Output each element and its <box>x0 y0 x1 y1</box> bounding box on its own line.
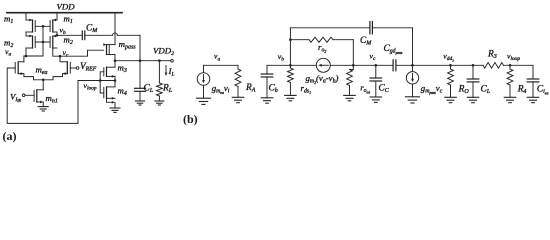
svg-text:m4: m4 <box>118 86 127 98</box>
label vc <box>63 48 69 59</box>
wire m1-right source stub <box>56 13 58 20</box>
junction vb model <box>289 64 292 67</box>
svg-text:R4: R4 <box>517 85 527 96</box>
svg-text:vb: vb <box>278 52 284 63</box>
wire m4 source down <box>107 98 116 108</box>
svg-text:vc: vc <box>370 51 376 62</box>
svg-text:m1: m1 <box>64 14 73 26</box>
label ro_ea <box>360 83 370 95</box>
wire m3 drain up <box>114 61 116 67</box>
svg-text:Cb: Cb <box>269 84 278 95</box>
resistor RA <box>232 65 244 102</box>
ground under mn1 <box>38 107 48 111</box>
wire CM top loop right <box>372 28 412 66</box>
wire va node <box>204 64 239 66</box>
resistor ro_ea <box>344 65 356 101</box>
transistor m2 left PMOS <box>26 35 35 48</box>
junction RO <box>449 64 452 67</box>
label IL <box>168 66 175 78</box>
transistor mpass PMOS <box>103 43 115 54</box>
wire mpass drain to output <box>114 55 116 61</box>
transistor m1 right PMOS <box>50 19 57 32</box>
svg-text:IL: IL <box>168 66 175 78</box>
svg-text:RA: RA <box>245 83 256 94</box>
svg-text:vdd2: vdd2 <box>443 52 454 63</box>
label CL schematic <box>144 84 154 95</box>
wire m2R drain to vc <box>53 48 60 56</box>
capacitor Cgd_pass series <box>393 60 396 71</box>
junction CM output node <box>139 59 142 62</box>
wire mea left source staircase <box>18 72 43 80</box>
ground under gm_pass <box>406 97 420 103</box>
svg-text:gmeavi: gmeavi <box>212 83 230 95</box>
transistor mn1 NMOS <box>34 90 43 104</box>
svg-text:Cgdpass: Cgdpass <box>384 44 403 55</box>
wire CM to output node with hop <box>85 33 140 61</box>
label vloop model <box>507 52 520 63</box>
wire vc to mpass gate <box>60 50 104 56</box>
wire vloop segment <box>504 64 534 66</box>
label mea <box>36 64 48 76</box>
transistor mea left NMOS <box>15 62 18 74</box>
label VIN <box>10 91 21 103</box>
label rds1 <box>301 83 312 95</box>
transistor m2 right PMOS <box>50 35 57 48</box>
resistor ro2 <box>290 37 353 65</box>
wire vb riser <box>289 28 291 66</box>
junction vc <box>59 55 62 58</box>
resistor RL <box>157 61 163 101</box>
label vb model <box>278 52 284 63</box>
svg-text:(b): (b) <box>183 112 198 126</box>
label m1 right <box>64 14 73 26</box>
svg-text:VDD2: VDD2 <box>153 46 174 58</box>
svg-text:m2: m2 <box>64 35 73 47</box>
label CC <box>379 84 390 95</box>
svg-text:VDD: VDD <box>57 2 76 12</box>
svg-text:Ciea: Ciea <box>537 85 549 96</box>
wire mpass source to rail <box>114 13 116 45</box>
junction vloop gates <box>99 79 102 82</box>
wire m1 pair gate tie <box>35 25 50 27</box>
label va model <box>214 52 220 63</box>
label mpass <box>119 39 137 51</box>
svg-text:gm2(va-vb): gm2(va-vb) <box>306 73 339 85</box>
wire vdd2 segment <box>396 64 483 66</box>
terminal VIN bias <box>22 94 25 97</box>
transistor mea right NMOS <box>63 62 71 74</box>
wire m1-left source stub <box>25 13 27 20</box>
wire output node <box>115 60 171 62</box>
wire vb segment <box>267 64 316 66</box>
label VDD2 <box>153 46 174 58</box>
wire mea right gate to VREF <box>70 67 76 69</box>
svg-text:ro2: ro2 <box>318 42 326 54</box>
resistor rds1 <box>285 65 297 101</box>
junction m1 gates <box>42 25 45 28</box>
junction vloop model <box>509 64 512 67</box>
svg-text:RO: RO <box>458 85 470 96</box>
svg-text:va: va <box>214 52 220 63</box>
label Cb <box>269 84 278 95</box>
svg-text:VREF: VREF <box>80 61 97 73</box>
label m2 left <box>4 38 13 50</box>
wire feedback from mea left gate <box>7 68 78 123</box>
svg-text:CL: CL <box>144 84 154 95</box>
load current arrow IL <box>165 66 168 77</box>
svg-text:vc: vc <box>63 48 69 59</box>
svg-text:CM: CM <box>86 24 98 35</box>
wire gate tie vertical to va <box>42 26 44 56</box>
resistor R3 series <box>483 63 504 69</box>
label VREF <box>80 61 97 73</box>
wire m4 gate tie up <box>100 81 104 94</box>
svg-text:mea: mea <box>36 64 48 76</box>
ground under CL schematic <box>136 101 145 105</box>
svg-text:CL: CL <box>481 85 491 96</box>
label gm_ea vi <box>212 83 230 95</box>
wire m2L drain to node va <box>25 48 27 56</box>
capacitor CL schematic <box>135 61 146 101</box>
wire mea left drain up to va <box>18 56 24 62</box>
capacitor Ci_ea <box>527 65 539 102</box>
junction m2 gates <box>42 41 45 44</box>
capacitor CM schematic <box>82 31 85 40</box>
transistor m3 NMOS <box>104 67 115 78</box>
terminal VREF <box>76 67 79 70</box>
label Cgd_pass <box>384 44 403 55</box>
junction ro2 at vc <box>352 64 355 67</box>
junction va m2L drain <box>25 55 28 58</box>
junction gm_pass <box>411 64 414 67</box>
wire m4 drain up <box>114 81 116 87</box>
junction output mpass m3 <box>114 59 117 62</box>
label CL model <box>481 85 491 96</box>
label RL <box>162 84 173 95</box>
label (a) <box>3 129 17 143</box>
svg-text:vb: vb <box>60 25 66 36</box>
label m3 <box>118 63 127 75</box>
transistor m1 left PMOS <box>26 19 35 32</box>
dependent source gm_pass vc <box>406 65 418 97</box>
svg-text:CM: CM <box>360 36 372 47</box>
label va <box>5 47 11 58</box>
label m4 <box>118 86 127 98</box>
svg-text:mpass: mpass <box>119 39 137 51</box>
label vb <box>60 25 66 36</box>
label vdd2 model <box>443 52 454 63</box>
power rail label VDD <box>57 2 76 12</box>
label CM model <box>360 36 372 47</box>
capacitor CM model <box>370 22 373 34</box>
wire vc down to mea right drain <box>60 56 63 62</box>
junction mea tail <box>42 79 45 82</box>
wire m3 source down to vloop <box>114 76 116 80</box>
capacitor CL model <box>467 65 479 102</box>
wire vloop <box>78 80 115 82</box>
label Ci_ea <box>537 85 549 96</box>
label gm2 va-vb <box>306 73 339 85</box>
junction vb <box>56 34 59 37</box>
svg-text:m3: m3 <box>118 63 127 75</box>
ground under m4 <box>110 108 120 112</box>
wire m1L-m2L spine <box>25 32 27 36</box>
label vc model <box>370 51 376 62</box>
svg-text:vloop: vloop <box>84 81 97 92</box>
wire node va <box>24 55 43 57</box>
svg-text:mn1: mn1 <box>46 93 58 105</box>
wire mea right source staircase <box>43 72 67 80</box>
svg-text:(a): (a) <box>3 129 17 143</box>
svg-text:RL: RL <box>162 84 173 95</box>
svg-text:m1: m1 <box>4 14 13 26</box>
capacitor Cb <box>261 65 273 103</box>
wire tail to mn1 <box>42 80 44 90</box>
wire m1R drain to vb <box>56 32 58 35</box>
label RA <box>245 83 256 94</box>
ground under gm_ea source <box>197 98 211 104</box>
label ro2 <box>318 42 326 54</box>
label R3 <box>487 49 497 60</box>
resistor RO <box>445 65 457 102</box>
svg-text:R3: R3 <box>487 49 497 60</box>
capacitor CC <box>370 65 382 102</box>
label m2 right <box>64 35 73 47</box>
dependent source gm2 <box>316 58 330 72</box>
wire m3 gate tie down <box>100 72 104 81</box>
junction vloop m3 m4 <box>114 79 117 82</box>
label RO <box>458 85 470 96</box>
wire mn1 gate <box>25 94 34 96</box>
junction RL branch <box>158 59 161 62</box>
svg-text:gmpassvc: gmpassvc <box>421 83 443 95</box>
wire m2 pair gate tie <box>35 41 50 43</box>
ground under RL <box>155 101 164 105</box>
wire VDD rail <box>7 12 122 14</box>
svg-text:roea: roea <box>360 83 370 95</box>
terminal VDD2 <box>171 59 174 62</box>
wire vb to CM <box>57 34 82 36</box>
transistor m4 NMOS <box>104 87 115 100</box>
label (b) <box>183 112 198 126</box>
label CM schematic <box>86 24 98 35</box>
svg-text:VIIN: VIIN <box>10 91 21 103</box>
label vloop <box>84 81 97 92</box>
junction ro2 tap <box>289 38 292 41</box>
wire vc segment <box>330 64 393 66</box>
svg-text:rds1: rds1 <box>301 83 312 95</box>
wire mn1 source down <box>42 102 44 107</box>
label mn1 <box>46 93 58 105</box>
junction CL model <box>472 64 475 67</box>
junction CC <box>375 64 378 67</box>
label m1 left <box>4 14 13 26</box>
svg-text:CC: CC <box>379 84 390 95</box>
label gm_pass vc <box>421 83 443 95</box>
resistor R4 <box>504 65 516 102</box>
current source gm_ea vi <box>197 65 210 98</box>
label R4 <box>517 85 527 96</box>
wire CM top loop left <box>290 27 370 29</box>
svg-text:vloop: vloop <box>507 52 520 63</box>
